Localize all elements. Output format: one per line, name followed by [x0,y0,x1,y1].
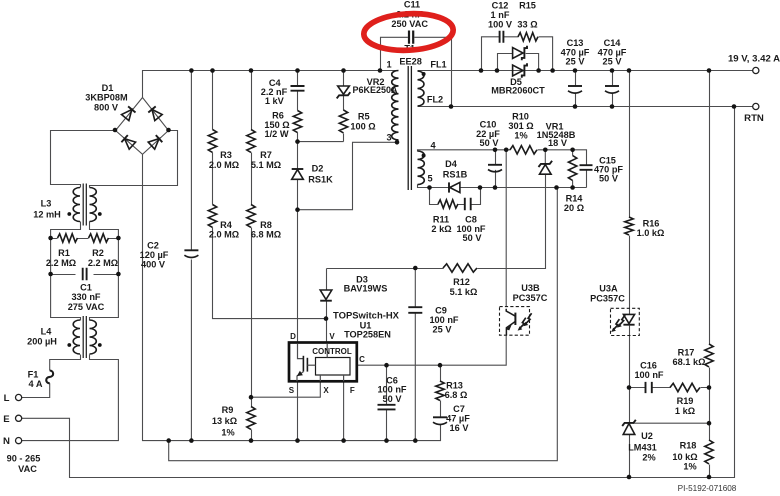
label C2 [140,241,169,270]
svg-text:5.1 MΩ: 5.1 MΩ [251,160,281,170]
svg-text:C11: C11 [404,0,420,10]
label T1 [399,44,421,67]
wire R13 C7 branch [440,365,442,417]
capacitor C14 [605,85,619,87]
resistor R7 [247,130,255,153]
resistor R3 [208,130,216,153]
wire R14 branch [572,150,574,188]
svg-text:E: E [3,414,10,425]
capacitor C6 [378,405,396,410]
resistor R6 [293,111,301,133]
svg-text:L: L [4,393,10,404]
label R12 [450,277,478,297]
resistor R16 [625,217,633,235]
label D5 [491,77,545,96]
resistor R19 [670,383,700,391]
svg-text:120 µF: 120 µF [140,250,169,260]
svg-text:PC357C: PC357C [590,294,625,304]
svg-text:C8: C8 [465,215,477,225]
terminal 19V output [753,67,759,73]
svg-text:D2: D2 [312,164,324,174]
diode D2 RS1K [292,169,304,179]
svg-text:D1: D1 [102,83,114,93]
node pin5 R11 [427,185,432,190]
wire bridge AC left to L3 top-left [51,131,116,188]
label D3 [344,275,388,294]
label C8 [456,215,485,244]
label R16 [637,218,665,238]
label CONTROL [312,347,352,356]
resistor R12 [443,264,477,272]
label C1 [68,283,105,313]
node R2 right [116,236,121,241]
node drain D2 staircase [295,207,300,212]
wire R17 R18 divider column [709,71,711,478]
node bridge AC right [166,128,171,133]
node clamp R6 R5 D2 [295,139,300,144]
wire R1 R2 row [51,238,119,240]
svg-text:800 V: 800 V [94,103,119,113]
wire bridge negative to primary ground rail [143,154,441,440]
capacitor C16 [646,382,652,393]
bridge rectifier D1 3KBP08M [121,106,162,149]
svg-text:D4: D4 [445,159,458,169]
svg-text:V: V [329,332,335,341]
label R1 R2 [46,248,118,268]
terminal RTN [753,103,759,109]
capacitor C13 [568,85,582,87]
wire C14 branch [612,71,614,107]
svg-text:VAC: VAC [18,464,37,474]
svg-text:200 µH: 200 µH [27,337,57,347]
svg-text:LM431: LM431 [628,442,657,452]
node pin5 C8 [478,185,483,190]
label R6 [264,111,289,139]
wire R16 opto U2 column [629,71,631,478]
resistor R4 [208,205,216,228]
svg-text:R19: R19 [677,396,694,406]
label U2 [628,431,657,463]
svg-text:3KBP08M: 3KBP08M [85,93,128,103]
node HV bus / C4 [295,68,300,73]
node 19V bus R16 [627,68,632,73]
U1 CONTROL inner block [316,358,351,376]
label R19 [675,396,695,416]
svg-text:R14: R14 [566,194,584,204]
svg-text:R11: R11 [433,215,449,225]
svg-text:BAV19WS: BAV19WS [344,284,388,294]
wire D5 snubber C12 R15 [482,37,553,71]
node RTN riser [732,104,737,109]
svg-text:1%: 1% [514,130,527,140]
resistor R13 [436,381,444,400]
node pin5 R14 [570,185,575,190]
svg-text:50 V: 50 V [480,138,500,148]
svg-text:U3A: U3A [599,284,618,294]
wire V pin OVP line with R12 [327,174,546,268]
svg-text:19 V, 3.42 A: 19 V, 3.42 A [728,54,780,65]
svg-text:16 V: 16 V [450,423,470,433]
wire T1 pin 3 lead [397,141,398,143]
node fb line R19 R17 [707,385,712,390]
resistor R9 [247,407,255,430]
svg-text:R15: R15 [519,1,536,11]
svg-text:4: 4 [430,141,436,151]
svg-text:RTN: RTN [744,113,764,124]
wire E terminal to secondary ground rail and RTN riser [22,107,735,478]
svg-text:100 nF: 100 nF [429,315,458,325]
label C14 [598,38,627,67]
wire R7 R8 R9 chain [251,71,253,441]
svg-text:C12: C12 [492,1,509,11]
optocoupler U3B PC357C phototransistor [500,307,532,336]
node HV bus / R3 [210,68,215,73]
capacitor C11 [409,31,413,44]
node ref divider [707,421,712,426]
terminal L [16,394,22,400]
svg-text:R16: R16 [643,218,660,228]
resistor R2 [89,234,109,242]
wire VR1 leads [544,150,546,164]
svg-text:N: N [3,436,10,447]
svg-text:3: 3 [386,133,391,143]
resistor R15 [518,33,538,41]
capacitor C2 [184,249,198,251]
svg-text:X: X [323,386,329,395]
capacitor C8 [465,198,471,211]
wire C11 right side down to output RTN [414,37,451,106]
svg-text:2.2 MΩ: 2.2 MΩ [46,258,76,268]
label C4 [261,78,288,106]
node 19V bus C14 [610,68,615,73]
svg-text:R18: R18 [680,440,697,450]
svg-text:68.1 kΩ: 68.1 kΩ [673,357,706,367]
node C1 left [48,272,53,277]
svg-text:C13: C13 [567,38,584,48]
svg-text:2.2 MΩ: 2.2 MΩ [88,258,118,268]
svg-text:100 V: 100 V [488,20,513,30]
svg-text:C9: C9 [435,305,447,315]
svg-text:C16: C16 [640,360,657,370]
svg-text:25 V: 25 V [433,325,453,335]
label C12 [488,1,513,30]
svg-text:4 A: 4 A [29,379,43,389]
terminal N [16,438,22,444]
node 19V bus D5 anode [495,68,500,73]
label L3 [33,199,61,220]
svg-text:50 V: 50 V [463,233,483,243]
node pin5 C10 [493,185,498,190]
wire bridge AC right to L3 top-right [90,131,178,188]
svg-text:EE28: EE28 [399,57,421,67]
node gnd rail bias stub [166,438,171,443]
svg-text:1.0 kΩ: 1.0 kΩ [637,228,665,238]
transformer T1 core [408,66,411,190]
label VR2 [353,77,398,95]
node V pin D3 R4 [324,316,329,321]
capacitor C12 [500,31,504,43]
resistor R8 [247,205,255,228]
wire fuse to L terminal [22,383,50,397]
svg-text:25 V: 25 V [566,57,586,67]
node HV bus / C2 [189,68,194,73]
svg-text:U3B: U3B [521,283,540,293]
wire clamp node R6 to R5 [298,141,344,143]
resistor R14 [568,156,576,181]
wire X pin to R9 node [252,382,321,398]
svg-text:20 Ω: 20 Ω [564,203,584,213]
svg-text:13 kΩ: 13 kΩ [212,416,237,426]
svg-text:12 mH: 12 mH [33,210,61,220]
label C11 [391,0,428,29]
label C9 [429,305,458,334]
node HV bus / VR2 [341,68,346,73]
label R18 [672,440,697,471]
node bridge AC left [113,128,118,133]
svg-text:18 V: 18 V [548,138,568,148]
svg-text:6.8 MΩ: 6.8 MΩ [251,230,281,240]
svg-text:RS1B: RS1B [443,170,468,180]
wire bridge diamond [116,98,169,155]
wire L3 bottom-right to R2 node [90,222,119,239]
svg-text:1 nF: 1 nF [491,10,510,20]
wire left EMI column [51,239,81,321]
U1 internal MOSFET [297,344,344,381]
label R11 [431,215,451,235]
diode D4 RS1B [449,182,460,192]
wire D3 to V pin [326,269,328,344]
label L4 [27,327,57,347]
label R4 R8 [209,220,281,240]
capacitor C4 [291,86,305,91]
node RTN C13 [573,104,578,109]
diode D3 BAV19WS [320,290,332,301]
node X pin R9 [249,395,254,400]
svg-text:90 - 265: 90 - 265 [7,453,41,463]
svg-text:R17: R17 [678,347,695,357]
TVS diode VR2 P6KE250A [337,86,351,98]
wire T1 pin 4 bias+ line [418,150,587,188]
node sec gnd U2 [627,475,632,480]
label D2 [308,164,333,185]
resistor R17 [705,344,713,367]
label output 19V [728,54,780,65]
node sec gnd R18 [707,475,712,480]
wire right EMI column [90,239,119,321]
label FL1 FL2 [427,60,447,105]
zener diode VR1 1N5248B [539,161,553,174]
wire T1 pin 5 line with D4 [418,185,587,188]
svg-text:2%: 2% [642,452,655,462]
label D1 [85,83,128,113]
svg-text:MBR2060CT: MBR2060CT [491,86,545,96]
svg-text:5: 5 [427,174,432,184]
svg-text:RS1K: RS1K [308,175,333,185]
svg-text:50 V: 50 V [383,394,403,404]
label R10 [508,112,533,141]
pin labels U1 [289,332,365,395]
label RTN [744,113,764,124]
wire C10 branch [495,150,497,188]
svg-text:FL1: FL1 [430,60,446,70]
resistor R11 [438,200,458,208]
wire bias+ to opto collector [505,150,507,307]
svg-text:2.0 MΩ: 2.0 MΩ [209,160,239,170]
svg-text:R12: R12 [453,277,470,287]
wire C1 row [51,274,119,276]
node 19V bus C13 [573,68,578,73]
node HV bus / C11 [378,68,383,73]
node 19V bus D5 cathode [536,68,541,73]
inductor L3 windings [67,184,101,226]
svg-text:1/2 W: 1/2 W [265,129,289,139]
wire secondary output bus 19V [418,70,753,72]
terminal E [16,415,22,421]
label VR1 [537,121,576,148]
svg-text:F1: F1 [28,370,39,380]
svg-text:100 nF: 100 nF [634,370,663,380]
node RTN C11 [449,104,454,109]
node fb line U2 top [627,385,632,390]
capacitor C10 [488,164,502,166]
label R13 [445,381,468,400]
wire C11 left riser to HV bus [381,37,408,70]
svg-text:TOP258EN: TOP258EN [344,330,391,340]
pin numbers T1 [386,60,436,184]
svg-text:50 V: 50 V [599,173,619,183]
label input voltage range [7,453,41,474]
capacitor C15 [580,165,593,170]
node HV bus / R7 [249,68,254,73]
svg-text:CONTROL: CONTROL [312,347,352,356]
label R9 [212,405,237,438]
transformer T1 bias winding pins 4-5 [418,151,426,185]
svg-text:1: 1 [386,60,391,70]
svg-text:D: D [290,332,296,341]
shunt regulator U2 LM431 [622,420,636,435]
node C pin C6 [384,363,389,368]
node R12 C9 [413,266,418,271]
resistor R1 [58,234,78,242]
node T1 pin 3 [395,140,400,145]
wire L4 bottom-right to N terminal [22,355,119,441]
inductor L4 windings [67,316,101,358]
transformer T1 primary winding [392,71,399,140]
label F1 [28,370,43,390]
svg-text:275 VAC: 275 VAC [68,302,105,312]
svg-text:TOPSwitch-HX: TOPSwitch-HX [333,310,400,321]
wire VR2 R5 chain [343,71,345,142]
label C15 [594,156,623,184]
svg-text:25 V: 25 V [603,57,623,67]
node gnd rail C6 [384,438,389,443]
node C1 right [116,272,121,277]
label L E N input [3,393,10,447]
svg-text:FL2: FL2 [427,95,443,105]
svg-text:C7: C7 [453,404,465,414]
svg-text:400 V: 400 V [141,260,166,270]
node R1 left [48,236,53,241]
resistor R18 [705,440,713,464]
wire C13 branch [575,71,577,107]
node C pin R13 [438,363,443,368]
svg-text:L3: L3 [41,199,52,209]
wire C6 branch [386,365,388,440]
label D4 [443,159,468,180]
svg-text:250 VAC: 250 VAC [391,19,428,29]
node 19V bus snubber right [550,68,555,73]
label R3 R7 [209,150,281,170]
label C10 [476,120,500,149]
fuse F1 [46,371,53,384]
svg-text:C10: C10 [480,120,497,130]
optocoupler U3A PC357C LED [611,308,640,335]
svg-text:R5: R5 [358,111,370,121]
svg-text:6.8 Ω: 6.8 Ω [445,390,468,400]
wire L4 bottom-left to fuse F1 [50,355,81,371]
wire D5 upper diode loop [498,54,539,71]
svg-text:U2: U2 [641,431,653,441]
wire C4 R6 D2 clamp chain and D pin line [297,71,299,344]
svg-text:R1: R1 [58,248,70,258]
svg-text:C: C [359,355,365,364]
wire primary ground stub to bias return rail [169,188,558,461]
svg-text:1%: 1% [683,461,696,471]
node 19V bus R17 [707,68,712,73]
label C6 [377,375,406,404]
node gnd rail F pin [341,438,346,443]
wire C9 branch [414,269,416,441]
svg-text:33 Ω: 33 Ω [517,20,537,30]
capacitor C9 [408,307,422,313]
dual diode D5 MBR2060CT [513,46,527,78]
label R17 [673,347,706,367]
label C16 [634,360,663,380]
svg-text:PI-5192-071608: PI-5192-071608 [678,484,737,493]
svg-text:S: S [289,386,295,395]
node bias+ R14 [570,148,575,153]
svg-text:R8: R8 [260,220,272,230]
op-amp U1 TOPSwitch block outline [289,343,357,382]
svg-text:F: F [350,386,355,395]
wire F pin to ground rail [343,382,345,441]
svg-text:C1: C1 [80,283,92,293]
label C7 [446,404,470,433]
svg-text:1 kV: 1 kV [265,96,285,106]
node 19V bus snubber left [479,68,484,73]
node gnd rail C9 [413,438,418,443]
wire L3 bottom-left to R1 node [51,222,81,239]
resistor R5 [339,110,347,133]
svg-text:2 kΩ: 2 kΩ [431,224,451,234]
label R14 [564,194,584,214]
node gnd rail C2 [189,438,194,443]
svg-text:2.0 MΩ: 2.0 MΩ [209,230,239,240]
svg-text:C2: C2 [147,241,159,251]
label U3A [590,284,625,304]
node bias+ VR1 R10 [543,148,548,153]
node bias+ C10 [493,148,498,153]
svg-text:PC357C: PC357C [513,293,548,303]
wire S pin to ground rail [297,382,299,441]
svg-text:C14: C14 [604,38,622,48]
wire U2 reference line [634,422,710,424]
svg-text:5.1 kΩ: 5.1 kΩ [450,287,478,297]
wire T1 pin 3 staircase to drain node [298,142,398,209]
wire HV+ top bus from bridge to T1 pin 1 [143,71,399,98]
transformer T1 output winding FL1-FL2 [418,71,426,106]
node RTN C14 [610,104,615,109]
